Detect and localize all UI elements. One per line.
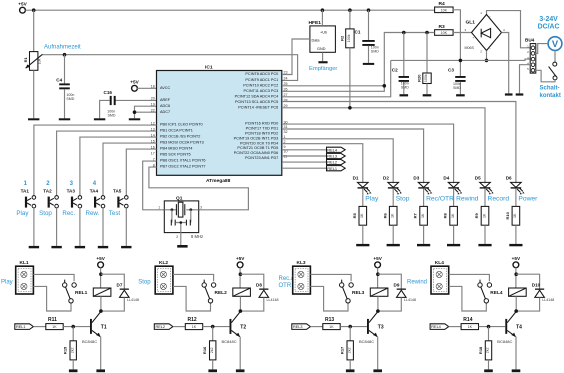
wire pin to net flag REL2 [282, 161, 327, 163]
svg-text:1K: 1K [451, 213, 455, 218]
terminal block KL1 [16, 260, 34, 294]
diode D7 LL4148 [101, 274, 139, 302]
svg-text:R11: R11 [48, 317, 57, 323]
svg-text:+5V: +5V [373, 256, 382, 261]
svg-text:PCINT21 OC0B T1 PD5: PCINT21 OC0B T1 PD5 [237, 146, 278, 150]
capacitor C4 100n [64, 55, 66, 84]
pushbutton TA3 [67, 189, 82, 208]
diode D8 LL4148 [240, 274, 278, 302]
svg-text:10K: 10K [441, 8, 448, 12]
relay coil REL3 [352, 288, 388, 296]
node net flag REL4 [327, 147, 346, 152]
svg-text:kontakt: kontakt [540, 93, 561, 99]
wire LED to resistor [484, 189, 486, 207]
svg-text:ADC7: ADC7 [160, 110, 170, 114]
pushbutton TA2 [43, 189, 58, 208]
svg-text:PCINT10 ADC2 PC2: PCINT10 ADC2 PC2 [243, 83, 278, 87]
ground (TA5) [121, 246, 131, 248]
wire pin27 to DC rail [282, 60, 391, 96]
ground (R10) [509, 244, 522, 246]
svg-text:PB4 MISO PCINT4: PB4 MISO PCINT4 [160, 147, 193, 151]
svg-text:R7: R7 [413, 212, 418, 218]
ground (R16) [208, 369, 217, 372]
svg-text:1K: 1K [391, 213, 395, 218]
svg-text:R20: R20 [416, 74, 421, 82]
svg-text:LL4148: LL4148 [267, 298, 279, 302]
ground (R8) [447, 244, 460, 246]
rectifier bridge GL1 M06S [472, 15, 502, 51]
pushbutton TA1 [21, 189, 36, 208]
svg-text:PCINT14 -IRESET PC6: PCINT14 -IRESET PC6 [238, 105, 278, 109]
svg-text:TA5: TA5 [113, 189, 122, 194]
wire pin to net flag REL4 [282, 149, 327, 151]
wire base [63, 326, 90, 328]
svg-text:KL4: KL4 [435, 260, 444, 266]
wire emitter to ground [377, 337, 379, 370]
wire AVCC [137, 87, 156, 89]
svg-text:T2: T2 [240, 324, 246, 330]
wire R1 wiper to pin24 (ADC1) [43, 55, 298, 81]
svg-text:2k2: 2k2 [70, 348, 74, 354]
svg-text:+5V: +5V [512, 256, 521, 261]
svg-text:R1: R1 [23, 56, 28, 62]
wire emitter to ground [239, 337, 241, 370]
resistor R11 1K [33, 326, 46, 328]
resistor R9 1K [481, 206, 489, 225]
svg-text:D6: D6 [506, 176, 512, 181]
voltmeter V [548, 37, 562, 51]
wire button to ground [33, 208, 35, 246]
connector BU4 [530, 44, 536, 74]
svg-text:~: ~ [489, 15, 491, 19]
wire KL bottom to contact pole [173, 286, 211, 311]
wire IC to LED D3 [282, 129, 424, 183]
svg-text:PCINT23 AIN1 PD7: PCINT23 AIN1 PD7 [245, 156, 278, 160]
+5V terminal (REL4 coil) [513, 262, 519, 268]
wire R2 to pin29 [349, 48, 351, 108]
svg-text:PCINT18 INT0 PD2: PCINT18 INT0 PD2 [245, 132, 278, 136]
svg-text:PCINT20 XCK T0 PD4: PCINT20 XCK T0 PD4 [240, 141, 278, 145]
svg-text:BC848C: BC848C [497, 339, 512, 344]
wire diode bottom to collector [101, 297, 124, 311]
capacitor C16 100n (AREF) [115, 99, 156, 101]
resistor R10 1K [512, 206, 520, 225]
resistor R4 10K [435, 7, 454, 13]
svg-text:R6: R6 [382, 212, 387, 218]
svg-text:Rec./: Rec./ [279, 276, 293, 282]
+5V terminal (REL2 coil) [237, 262, 243, 268]
wire IC pin to button TA3 [80, 137, 157, 196]
wire pin to net flag REL1 [282, 167, 327, 169]
capacitor C2 100n [403, 33, 405, 77]
svg-text:SMD: SMD [108, 113, 116, 117]
resistor R8 1K [450, 206, 458, 225]
svg-text:Test: Test [109, 210, 121, 217]
ground (C2) [400, 94, 409, 96]
wire bridge AC1 to BU4 pin1 [487, 11, 531, 48]
svg-text:D2: D2 [383, 176, 389, 181]
svg-text:AVCC: AVCC [160, 86, 171, 90]
svg-text:D9: D9 [394, 283, 400, 288]
net flag REL3 [292, 324, 311, 330]
wire LED to resistor [423, 189, 425, 207]
wire base [340, 326, 367, 328]
svg-text:R18: R18 [478, 346, 483, 354]
relay contact (REL2) [202, 280, 216, 303]
svg-text:100k: 100k [347, 34, 351, 42]
IC IC1 ATmega88 microcontroller [157, 71, 282, 176]
svg-text:SMD: SMD [371, 49, 379, 53]
wire BU4 pin4 to ground [520, 65, 531, 94]
wire button to ground [125, 208, 127, 246]
relay contact (REL1) [62, 280, 76, 303]
svg-text:Rec.: Rec. [62, 210, 75, 217]
wire bridge minus to ground [502, 33, 509, 94]
ground (T3) [373, 369, 382, 372]
wire KL top to contact [173, 274, 214, 281]
wire DC rail (to BU4 pin2) [391, 59, 531, 60]
switch Schaltkontakt [553, 62, 557, 66]
svg-text:R12: R12 [188, 317, 197, 323]
svg-text:PCINT12 SDA ADC4 PC4: PCINT12 SDA ADC4 PC4 [235, 94, 279, 98]
svg-text:Rec/OTR: Rec/OTR [426, 196, 454, 203]
relay contact (REL3) [340, 280, 354, 303]
svg-text:GL1: GL1 [466, 20, 476, 26]
+5V terminal (REL3 coil) [375, 262, 381, 268]
svg-text:22: 22 [151, 108, 155, 112]
svg-text:Stop: Stop [138, 279, 151, 285]
+5V terminal (AVCC) [132, 85, 138, 91]
wire IC to LED D5 [282, 108, 485, 183]
wire +5V to coil [239, 267, 241, 288]
svg-text:REL2: REL2 [156, 325, 166, 329]
transistor T2 BC848C [222, 312, 247, 344]
svg-text:R2: R2 [340, 35, 345, 41]
svg-text:1K: 1K [421, 213, 425, 218]
svg-text:D5: D5 [475, 176, 481, 181]
ground (C3) [456, 94, 465, 96]
svg-text:R15: R15 [63, 346, 68, 354]
resistor R20 100k [426, 33, 428, 74]
svg-text:BU4: BU4 [525, 38, 535, 43]
svg-text:1K: 1K [468, 325, 473, 329]
svg-text:1: 1 [158, 205, 160, 209]
wire pin to net flag REL3 [282, 155, 327, 157]
ground (BU4 pin3) [516, 93, 524, 95]
svg-text:2: 2 [176, 235, 178, 239]
svg-text:1K: 1K [513, 213, 517, 218]
svg-text:~: ~ [489, 46, 491, 50]
svg-text:LL4148: LL4148 [127, 298, 139, 302]
svg-text:R10: R10 [505, 211, 510, 219]
wire button to ground [56, 208, 58, 246]
wire HFE1 GND [322, 52, 324, 61]
svg-text:3: 3 [200, 205, 202, 209]
wire +5V to coil [100, 267, 102, 288]
svg-text:PB0 ICP1 CLKO PCINT0: PB0 ICP1 CLKO PCINT0 [160, 123, 203, 127]
wire IC pin to button TA2 [57, 131, 157, 196]
svg-text:Power: Power [518, 196, 538, 203]
wire LED to resistor [515, 189, 517, 207]
ground (R18) [484, 369, 493, 372]
wire KL bottom to contact pole [33, 286, 71, 311]
svg-text:IC1: IC1 [205, 64, 213, 70]
resistor R5 1K [359, 206, 367, 225]
svg-text:D1: D1 [353, 176, 359, 181]
svg-text:KL1: KL1 [20, 260, 29, 266]
LED D4 [443, 176, 462, 195]
wire pin8 to Q1 [149, 167, 249, 210]
wire R3 to bridge [453, 32, 472, 34]
wire +5V to coil [515, 267, 517, 288]
svg-text:R5: R5 [352, 212, 357, 218]
resonator Q1 8MHz [158, 195, 202, 232]
wire R1 bottom to ground [33, 70, 35, 118]
svg-text:1K: 1K [482, 213, 486, 218]
svg-text:PCINT17 TXD PD1: PCINT17 TXD PD1 [246, 127, 279, 131]
svg-text:Record: Record [488, 196, 510, 203]
svg-text:T1: T1 [101, 324, 107, 330]
ground (ADC) [129, 118, 140, 120]
svg-text:PCINT11 ADC3 PC3: PCINT11 ADC3 PC3 [244, 89, 279, 93]
transistor T1 BC848C [82, 312, 107, 344]
svg-text:BC848C: BC848C [359, 339, 374, 344]
wire KL bottom to contact pole [310, 286, 348, 311]
svg-text:Stop: Stop [39, 210, 52, 217]
svg-text:TA4: TA4 [90, 189, 99, 194]
ground (T4) [512, 369, 521, 372]
svg-text:10K: 10K [441, 31, 448, 35]
svg-text:PCINT9 ADC1 PC1: PCINT9 ADC1 PC1 [245, 78, 278, 82]
wire KL top to contact [33, 274, 74, 281]
svg-text:REL1: REL1 [75, 290, 88, 296]
wire Q1 pin2 to ground [180, 233, 182, 245]
ground (R20) [423, 94, 432, 96]
ground (R17) [346, 369, 355, 372]
svg-text:V: V [552, 38, 559, 49]
wire KL top to contact [449, 274, 490, 281]
svg-text:Rewind: Rewind [407, 279, 427, 285]
svg-text:ADC6: ADC6 [160, 104, 170, 108]
resistor R7 1K [420, 206, 428, 225]
wire V to switch [554, 51, 556, 63]
svg-text:R17: R17 [340, 346, 345, 354]
ground (TA3) [75, 246, 85, 248]
capacitor C1 100n [368, 10, 370, 40]
svg-text:D3: D3 [413, 176, 419, 181]
resistor R12 1K [173, 326, 186, 328]
wire KL top to contact [310, 274, 351, 281]
potentiometer R1 10k [33, 10, 35, 51]
node net flag REL1 [327, 166, 346, 171]
svg-text:KL3: KL3 [297, 260, 306, 266]
svg-text:18: 18 [151, 85, 155, 89]
svg-text:KL2: KL2 [159, 260, 168, 266]
svg-text:+Ub: +Ub [320, 31, 327, 35]
svg-text:+5V: +5V [96, 256, 105, 261]
svg-text:LL4148: LL4148 [404, 298, 416, 302]
resistor R14 1K [449, 326, 462, 328]
wire V to BU4 pin1 [535, 44, 548, 54]
svg-text:REL3: REL3 [352, 290, 365, 296]
svg-text:Empfänger: Empfänger [309, 66, 337, 72]
svg-text:2k2: 2k2 [347, 348, 351, 354]
wire coil bottom to collector [239, 296, 241, 311]
svg-text:+5V: +5V [130, 79, 139, 84]
wire coil bottom to collector [377, 296, 379, 311]
svg-text:D10: D10 [532, 283, 541, 288]
LED D2 [383, 176, 402, 195]
svg-text:Data: Data [312, 38, 321, 42]
diode D9 LL4148 [378, 274, 416, 302]
svg-text:REL4: REL4 [327, 147, 338, 152]
resistor R18 2k2 [488, 327, 490, 341]
svg-text:REL2: REL2 [215, 290, 228, 296]
svg-text:PB5 SCK PCINT5: PB5 SCK PCINT5 [160, 153, 191, 157]
svg-text:PB2 OC1B /SS PCINT2: PB2 OC1B /SS PCINT2 [160, 135, 200, 139]
svg-text:REL3: REL3 [327, 154, 337, 159]
wire emitter to ground [515, 337, 517, 370]
svg-text:C4: C4 [56, 78, 62, 83]
terminal block KL3 [293, 260, 311, 294]
svg-text:D8: D8 [256, 283, 262, 288]
wire HFE1 Data to pin23 [282, 39, 310, 75]
wire IC pin to button TA4 [103, 143, 157, 196]
wire resistor to ground [453, 225, 455, 244]
svg-text:Play: Play [365, 196, 379, 203]
svg-text:T4: T4 [516, 324, 522, 330]
wire ADC6/ADC7 to ground [135, 106, 157, 118]
wire IC to LED D6 [282, 102, 516, 184]
wire switch to BU4 pin4 [535, 70, 555, 82]
svg-text:PB3 MOSI OC2A PCINT3: PB3 MOSI OC2A PCINT3 [160, 141, 204, 145]
resistor R17 2k2 [349, 327, 351, 341]
node net flag REL2 [327, 160, 346, 165]
svg-text:32: 32 [284, 130, 288, 134]
ground (HFE1) [318, 61, 327, 63]
svg-text:ATmega88: ATmega88 [206, 178, 231, 184]
ground (C4) [59, 118, 70, 120]
ground (C16) [94, 118, 105, 120]
svg-text:C1: C1 [355, 29, 361, 34]
relay coil REL1 [75, 288, 111, 296]
svg-text:1K: 1K [192, 325, 197, 329]
svg-text:T3: T3 [378, 324, 384, 330]
wire coil bottom to collector [515, 296, 517, 311]
wire KL bottom to contact pole [449, 286, 487, 311]
svg-text:2k2: 2k2 [486, 348, 490, 354]
transistor T4 BC848C [497, 312, 522, 344]
resistor R16 2k2 [212, 327, 214, 341]
svg-text:BC848C: BC848C [82, 339, 97, 344]
svg-text:R8: R8 [443, 212, 448, 218]
svg-text:PB6 OSC1 XTAL1 PCINT6: PB6 OSC1 XTAL1 PCINT6 [160, 159, 206, 163]
svg-text:D4: D4 [443, 176, 449, 181]
ground (C1) [363, 63, 374, 65]
relay contact (REL4) [478, 280, 492, 303]
svg-text:100k: 100k [424, 74, 428, 82]
wire resistor to ground [484, 225, 486, 244]
wire base [479, 326, 506, 328]
LED D5 [475, 176, 494, 195]
svg-text:REL2: REL2 [327, 160, 337, 165]
svg-text:PCINT19 OC2B INT1 PD3: PCINT19 OC2B INT1 PD3 [234, 136, 279, 140]
svg-text:3-24V: 3-24V [539, 16, 558, 23]
ground (T2) [236, 369, 245, 372]
svg-text:9: 9 [284, 145, 286, 149]
wire coil bottom to collector [100, 296, 102, 311]
svg-text:PB1 OC1A PCINT1: PB1 OC1A PCINT1 [160, 129, 193, 133]
svg-text:-: - [498, 36, 499, 40]
svg-text:R13: R13 [325, 317, 334, 323]
resistor R6 1K [389, 206, 397, 225]
svg-text:8 MHz: 8 MHz [191, 234, 203, 239]
svg-text:+5V: +5V [18, 1, 27, 6]
wire pin7 to Q1 [143, 161, 165, 210]
wire resistor to ground [515, 225, 517, 244]
svg-text:24: 24 [284, 77, 288, 81]
svg-text:PCINT16 RXD PD0: PCINT16 RXD PD0 [245, 122, 278, 126]
wire base [203, 326, 230, 328]
wire diode bottom to collector [240, 297, 263, 311]
wire LED to resistor [453, 189, 455, 207]
ground (R7) [417, 244, 430, 246]
wire LED to resistor [392, 189, 394, 207]
wire +5V to coil [377, 267, 379, 288]
svg-text:19: 19 [151, 102, 155, 106]
svg-text:Q1: Q1 [176, 195, 183, 201]
svg-text:11: 11 [284, 155, 288, 159]
svg-text:10k: 10k [38, 58, 42, 64]
svg-text:17: 17 [151, 151, 155, 155]
wire IC pin to button TA1 [34, 125, 157, 196]
resistor R3 10K [435, 30, 454, 36]
wire IC pin to button TA5 [126, 149, 156, 196]
wire LED to resistor [362, 189, 364, 207]
svg-text:1K: 1K [329, 325, 334, 329]
svg-text:PCINT13 SCL ADC5 PC5: PCINT13 SCL ADC5 PC5 [235, 100, 278, 104]
+5V terminal (REL1 coil) [98, 262, 104, 268]
svg-text:20: 20 [151, 97, 155, 101]
LED D3 [413, 176, 432, 195]
svg-text:REL1: REL1 [16, 325, 26, 329]
svg-text:R14: R14 [463, 317, 472, 323]
wire IC to LED D1 [282, 144, 363, 184]
svg-text:SMD: SMD [401, 85, 409, 89]
net flag REL4 [430, 324, 449, 330]
ground (R6) [387, 244, 400, 246]
wire resistor to ground [362, 225, 364, 244]
svg-text:SMD: SMD [453, 86, 461, 90]
wire R3 left lead down to pin26 [282, 33, 435, 92]
svg-text:Rew.: Rew. [86, 210, 100, 217]
wire button to ground [102, 208, 104, 246]
svg-text:1K: 1K [52, 325, 57, 329]
svg-text:M06S: M06S [465, 46, 475, 50]
svg-text:Play: Play [1, 279, 13, 285]
wire diode bottom to collector [378, 297, 401, 311]
svg-text:1K: 1K [360, 213, 364, 218]
ground (R15) [69, 369, 78, 372]
svg-text:Aufnahmezeit: Aufnahmezeit [44, 45, 81, 51]
resistor R2 100k [349, 10, 351, 29]
svg-text:REL1: REL1 [327, 166, 337, 171]
pushbutton TA4 [90, 189, 105, 208]
capacitor C3 100n [459, 59, 463, 63]
wire HFE1 +Ub [321, 10, 323, 26]
ground (R9) [478, 244, 491, 246]
svg-text:TA3: TA3 [67, 189, 76, 194]
